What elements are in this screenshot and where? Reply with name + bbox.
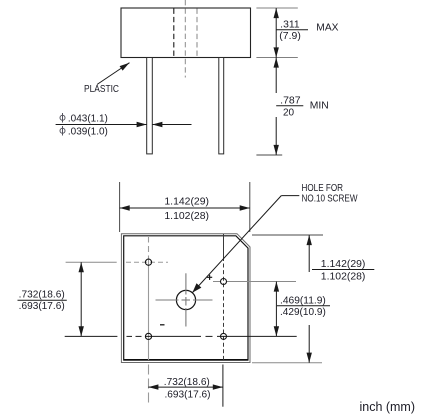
svg-text:.469(11.9): .469(11.9) xyxy=(280,296,326,307)
svg-text:MAX: MAX xyxy=(316,22,339,33)
left arrow from right side to pin xyxy=(152,124,191,126)
svg-text:NO.10 SCREW: NO.10 SCREW xyxy=(302,193,358,204)
extension line left of square for left dim top xyxy=(66,261,117,263)
svg-text:.429(10.9): .429(10.9) xyxy=(280,307,326,318)
plus pin circle xyxy=(221,279,227,285)
top view: inner body outline with chamfer xyxy=(124,236,248,360)
extension line at pin bottom xyxy=(256,154,282,156)
svg-text:1.142(29): 1.142(29) xyxy=(164,196,209,207)
svg-text:.732(18.6): .732(18.6) xyxy=(164,377,210,388)
mounting hole circle xyxy=(176,290,195,309)
centerline horizontal through top-left pin xyxy=(126,261,168,263)
svg-text:.787: .787 xyxy=(280,95,301,106)
bottom pin spacing dimension line xyxy=(148,386,223,388)
centerline horizontal through bottom pins xyxy=(127,335,297,337)
top view: outer body outline with chamfer xyxy=(121,234,250,363)
left pin spacing dimension line .732 xyxy=(80,262,82,336)
fraction bar .787 xyxy=(276,105,303,107)
top width dim: left extension line xyxy=(119,182,121,232)
svg-text:1.102(28): 1.102(28) xyxy=(164,211,209,222)
svg-text:.693(17.6): .693(17.6) xyxy=(19,301,65,312)
centerline vertical through right pins xyxy=(223,234,225,360)
seating dimension line .787 upper segment xyxy=(275,58,277,94)
svg-text:inch (mm): inch (mm) xyxy=(360,399,416,414)
svg-text:.732(18.6): .732(18.6) xyxy=(19,290,65,301)
svg-text:1.102(28): 1.102(28) xyxy=(321,271,366,282)
right height dim: top extension line xyxy=(252,234,323,236)
extension line at body top xyxy=(256,7,297,9)
phi symbol top xyxy=(60,113,65,123)
right height dimension line upper segment xyxy=(308,235,310,272)
top width dimension line xyxy=(120,207,250,209)
bottom-right pin circle xyxy=(221,333,227,339)
extension line at body bottom xyxy=(256,57,297,59)
svg-text:(7.9): (7.9) xyxy=(279,31,301,42)
centerline vertical through left pins xyxy=(148,237,150,403)
inner outline bottom edge emphasis xyxy=(124,359,248,361)
side view: internal hidden line left xyxy=(173,9,175,58)
svg-text:.311: .311 xyxy=(280,20,300,31)
svg-text:PLASTIC: PLASTIC xyxy=(84,84,119,95)
hole leader line horizontal tail xyxy=(281,195,299,197)
svg-text:.039(1.0): .039(1.0) xyxy=(68,126,108,137)
top-left pin circle xyxy=(145,259,151,265)
mounting hole crosshair horizontal xyxy=(156,299,213,301)
lead diameter dimension line with right arrow to pin xyxy=(56,124,147,126)
svg-text:20: 20 xyxy=(283,107,295,118)
pin offset fraction bar xyxy=(277,305,330,307)
svg-text:.693(17.6): .693(17.6) xyxy=(165,390,211,401)
fraction bar .311 xyxy=(276,29,308,31)
svg-text:MIN: MIN xyxy=(310,101,329,112)
side view: vertical centerline xyxy=(184,0,186,78)
left pin spacing fraction bar xyxy=(18,299,67,301)
side view: left lead pin xyxy=(147,58,153,154)
svg-text:.043(1.1): .043(1.1) xyxy=(68,113,108,124)
mounting hole crosshair vertical xyxy=(185,273,187,326)
minus terminal marking xyxy=(160,324,165,326)
top width dim: right extension line xyxy=(249,182,251,232)
leader arrow for PLASTIC xyxy=(97,63,130,85)
extension line below square right (bottom dim) xyxy=(222,365,224,407)
side view: plastic body outline xyxy=(121,8,251,58)
hole leader line diagonal with arrow xyxy=(192,196,281,293)
side view: right lead pin xyxy=(219,58,224,154)
extension line left of square for left dim bottom xyxy=(65,335,118,337)
bottom-left pin circle xyxy=(145,333,151,339)
plus terminal marking xyxy=(207,275,212,280)
extension line right of plus pin xyxy=(227,281,296,283)
right height dimension line lower segment xyxy=(308,325,310,363)
pin offset dimension line .469 xyxy=(275,282,277,337)
seating dimension line .787 lower segment xyxy=(275,117,277,155)
centerline stub left of plus pin xyxy=(213,281,220,283)
right height fraction bar xyxy=(312,269,374,271)
phi symbol bottom xyxy=(60,126,65,136)
right height dim: bottom extension line xyxy=(252,362,322,364)
svg-text:1.142(29): 1.142(29) xyxy=(321,259,366,270)
side view: internal hidden line right xyxy=(196,9,198,58)
height dimension line .311 xyxy=(275,8,277,58)
